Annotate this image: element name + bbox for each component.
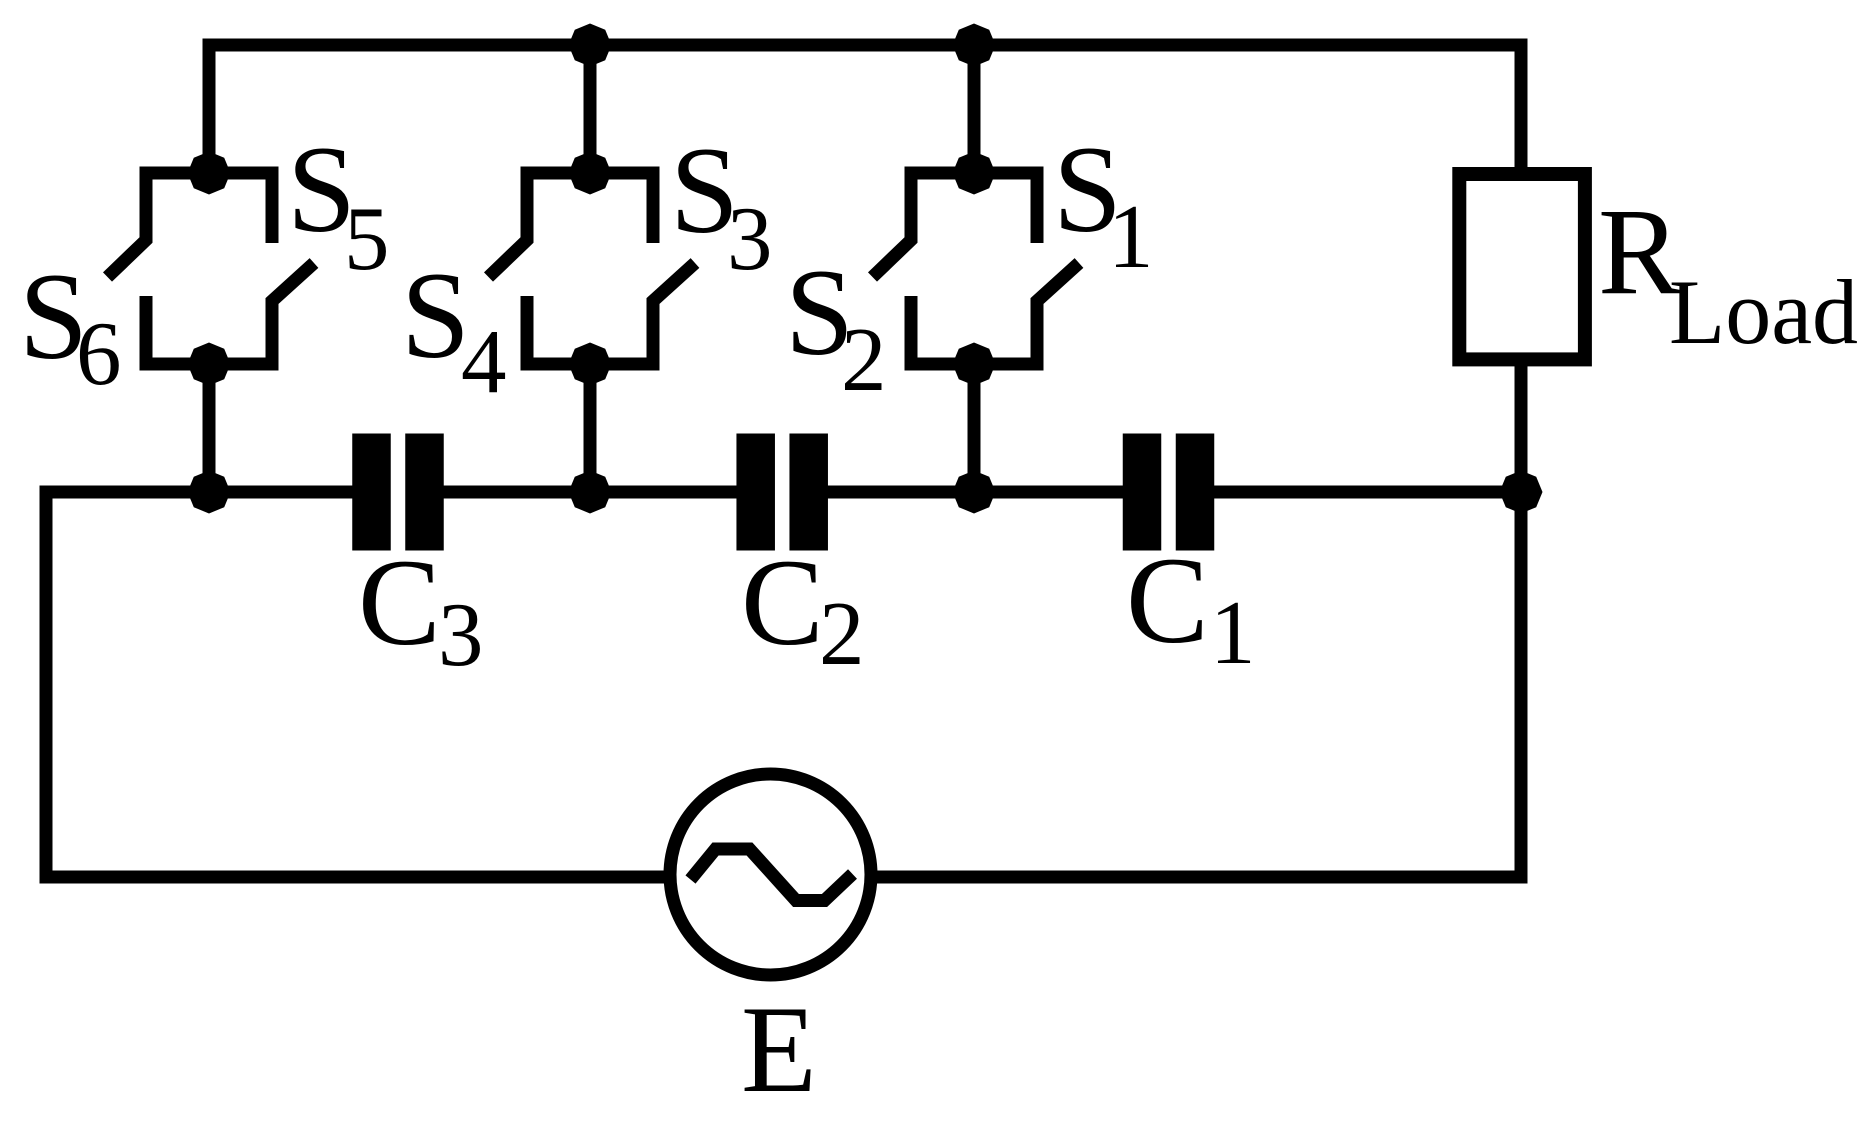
svg-text:1: 1 [1210,582,1256,683]
wire: switch pair S3/S4 to middle bus [584,364,597,492]
node: top bus junction above S1/S2 [953,24,996,67]
node: bottom of switch pair S5/S6 [188,343,231,386]
wire: middle bus segment between C3 and C2 [442,486,738,499]
resistor R_Load body [1459,174,1585,359]
label R_Load [1598,183,1858,363]
svg-text:3: 3 [438,584,484,685]
wire: middle bus segment between C2 and C1 [826,486,1124,499]
switch S1 blade [1037,263,1079,303]
wire: right side from middle bus down and bottom-right to source E [872,492,1521,877]
switch pair S3/S4: bottom bar with lower contacts [527,296,653,364]
capacitor C1 left plate [1123,434,1162,551]
svg-text:E: E [741,981,817,1118]
svg-text:C: C [1126,532,1209,669]
AC source E sine wave [691,849,853,901]
AC source E circle [670,774,871,975]
wire: right side from R_Load down to middle bus [1515,359,1528,492]
wire: switch pair S5/S6 to middle bus [203,364,216,492]
node: middle bus below S3/S4 [569,471,612,514]
node: top of switch pair S5/S6 [188,152,231,195]
capacitor C3 left plate [352,434,391,551]
label S3 [670,122,773,289]
wire: switch pair S1/S2 to middle bus [968,364,981,492]
svg-text:C: C [741,534,824,671]
node: top bus junction above S3/S4 [569,24,612,67]
capacitor C3 right plate [405,434,444,551]
switch S6 blade [108,238,147,277]
svg-text:Load: Load [1669,261,1858,363]
wire: middle bus left segment, left side and bottom-left to source E [46,492,665,877]
capacitor C1 right plate [1176,434,1215,551]
wire: middle bus segment between C1 and right side [1213,486,1521,499]
label E [741,981,817,1118]
node: middle bus below S5/S6 [188,471,231,514]
switch S4 blade [489,238,528,277]
label S6 [19,248,122,404]
svg-text:2: 2 [819,583,865,684]
wire: drop from top bus to switch pair S1/S2 [968,45,981,173]
wire: drop from top bus to switch pair S3/S4 [584,45,597,173]
svg-text:3: 3 [727,188,773,289]
label S4 [401,247,507,412]
svg-text:1: 1 [1108,186,1154,287]
capacitor C2 left plate [736,434,775,551]
node: bottom of switch pair S1/S2 [953,343,996,386]
node: top of switch pair S3/S4 [569,152,612,195]
label C3 [358,534,484,685]
capacitor C2 right plate [789,434,828,551]
svg-text:2: 2 [841,309,887,410]
node: middle bus right junction [1500,471,1543,514]
svg-text:5: 5 [344,188,390,289]
switch pair S5/S6: top bar with upper contacts [146,173,272,243]
svg-text:4: 4 [461,311,507,412]
label S2 [785,244,887,410]
svg-text:6: 6 [76,303,122,404]
node: bottom of switch pair S3/S4 [569,343,612,386]
switch S2 blade [873,238,912,277]
switch pair S1/S2: top bar with upper contacts [911,173,1037,243]
switch S5 blade [272,263,314,303]
wire: top bus from switch pair S5/S6 up, across the top, and down to R_Load [209,45,1521,173]
switch S3 blade [653,263,695,303]
switch pair S3/S4: top bar with upper contacts [527,173,653,243]
label S5 [287,121,390,289]
label C1 [1126,532,1256,683]
node: top of switch pair S1/S2 [953,152,996,195]
node: middle bus below S1/S2 [953,471,996,514]
switch pair S5/S6: bottom bar with lower contacts [146,296,272,364]
svg-text:C: C [358,534,441,671]
svg-text:S: S [401,247,470,384]
switch pair S1/S2: bottom bar with lower contacts [911,296,1037,364]
label S1 [1053,121,1154,287]
label C2 [741,534,865,684]
